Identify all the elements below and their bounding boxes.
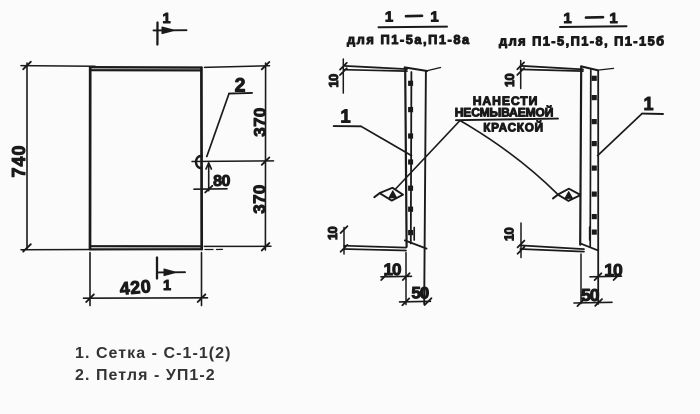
extension line through loop [192, 160, 274, 163]
s1 mesh strip [405, 67, 428, 304]
s2 mesh end hook [589, 227, 591, 240]
s2 bottom flange [520, 245, 584, 251]
s2 leader 1 [598, 114, 663, 156]
dim 370/370 vertical line [204, 62, 271, 250]
svg-text:1: 1 [430, 9, 438, 26]
svg-text:1: 1 [385, 9, 393, 26]
s1 dim 10 bottom horizontal [381, 253, 412, 281]
svg-text:НЕСМЫВАЕМОЙ: НЕСМЫВАЕМОЙ [455, 104, 554, 119]
svg-text:для П1-5а,П1-8а: для П1-5а,П1-8а [347, 32, 471, 47]
dim 420 [84, 253, 208, 306]
note leader to diamond 1 [396, 121, 460, 189]
section 1-1 title (right) [560, 17, 627, 27]
svg-text:1: 1 [563, 10, 571, 27]
svg-text:1: 1 [340, 106, 350, 127]
panel outline (plan view rectangle) [90, 67, 202, 249]
svg-text:1: 1 [643, 94, 653, 114]
s2 dim 10 bottom-left [518, 223, 525, 258]
svg-text:10: 10 [502, 228, 517, 242]
svg-text:370: 370 [250, 184, 269, 214]
svg-text:370: 370 [251, 107, 270, 137]
s1 bottom flange [344, 246, 406, 251]
parts list [75, 343, 232, 388]
s2 dim 50 [574, 254, 612, 306]
loop (петля) on right edge [196, 156, 202, 168]
svg-text:10: 10 [604, 260, 623, 280]
dim 740 vertical line [21, 62, 223, 252]
s2 mesh wire dots [592, 76, 597, 235]
svg-text:50: 50 [411, 283, 428, 302]
section mark bottom [157, 258, 185, 279]
s1 mesh wire dots [408, 81, 413, 236]
s2 top flange [521, 66, 614, 71]
section 1-1 title (left) [379, 16, 448, 27]
s1 top flange [344, 66, 441, 71]
svg-text:1: 1 [609, 10, 617, 27]
svg-text:10: 10 [326, 74, 341, 88]
note underline [456, 119, 558, 121]
svg-text:420: 420 [119, 276, 152, 299]
s1 dim 50 [400, 280, 432, 306]
svg-text:2: 2 [235, 75, 246, 97]
svg-text:10: 10 [502, 74, 517, 88]
s1 dim 10 top-left [340, 59, 347, 93]
svg-text:10: 10 [384, 260, 401, 279]
s2 mesh strip [580, 66, 598, 304]
svg-text:80: 80 [213, 173, 230, 190]
svg-text:50: 50 [581, 285, 600, 305]
svg-text:КРАСКОЙ: КРАСКОЙ [483, 120, 544, 134]
paint flag diamond 1 [374, 188, 403, 201]
svg-text:740: 740 [9, 144, 29, 177]
leader 2 [207, 93, 252, 157]
s1 mesh end hook [413, 228, 415, 241]
note leader to diamond 2 [460, 121, 557, 195]
svg-text:1: 1 [162, 11, 170, 27]
svg-text:для П1-5,П1-8, П1-15б: для П1-5,П1-8, П1-15б [499, 33, 666, 48]
s2 dim 10 bottom horizontal (right side) [590, 273, 622, 280]
paint flag diamond 2 [553, 189, 581, 201]
s2 dim 10 top-left [517, 61, 524, 89]
svg-text:10: 10 [325, 227, 340, 241]
s1 leader 1 [334, 126, 412, 156]
svg-text:1: 1 [163, 278, 171, 294]
s1 dim 10 bottom-left [341, 226, 348, 254]
section mark top [154, 23, 187, 45]
dim 80 [194, 163, 227, 193]
